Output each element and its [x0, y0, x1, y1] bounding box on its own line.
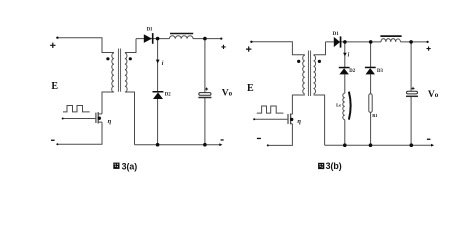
svg-text:Vo: Vo	[428, 90, 439, 100]
svg-text:η: η	[108, 118, 112, 125]
svg-text:i: i	[162, 61, 164, 67]
svg-text:D1: D1	[147, 28, 153, 33]
svg-text:D2: D2	[165, 93, 171, 98]
svg-text:D3: D3	[377, 69, 383, 74]
svg-text:3(a): 3(a)	[122, 161, 138, 171]
svg-text:Lе: Lе	[336, 103, 341, 108]
svg-text:η: η	[297, 118, 301, 125]
svg-text:D2: D2	[349, 69, 355, 74]
svg-text:D1: D1	[333, 32, 340, 37]
svg-text:R1: R1	[372, 113, 378, 118]
svg-text:Vo: Vo	[222, 88, 233, 98]
svg-text:3(b): 3(b)	[326, 161, 342, 171]
svg-text:i: i	[348, 53, 350, 59]
svg-text:E: E	[247, 83, 254, 94]
svg-text:E: E	[51, 81, 58, 92]
